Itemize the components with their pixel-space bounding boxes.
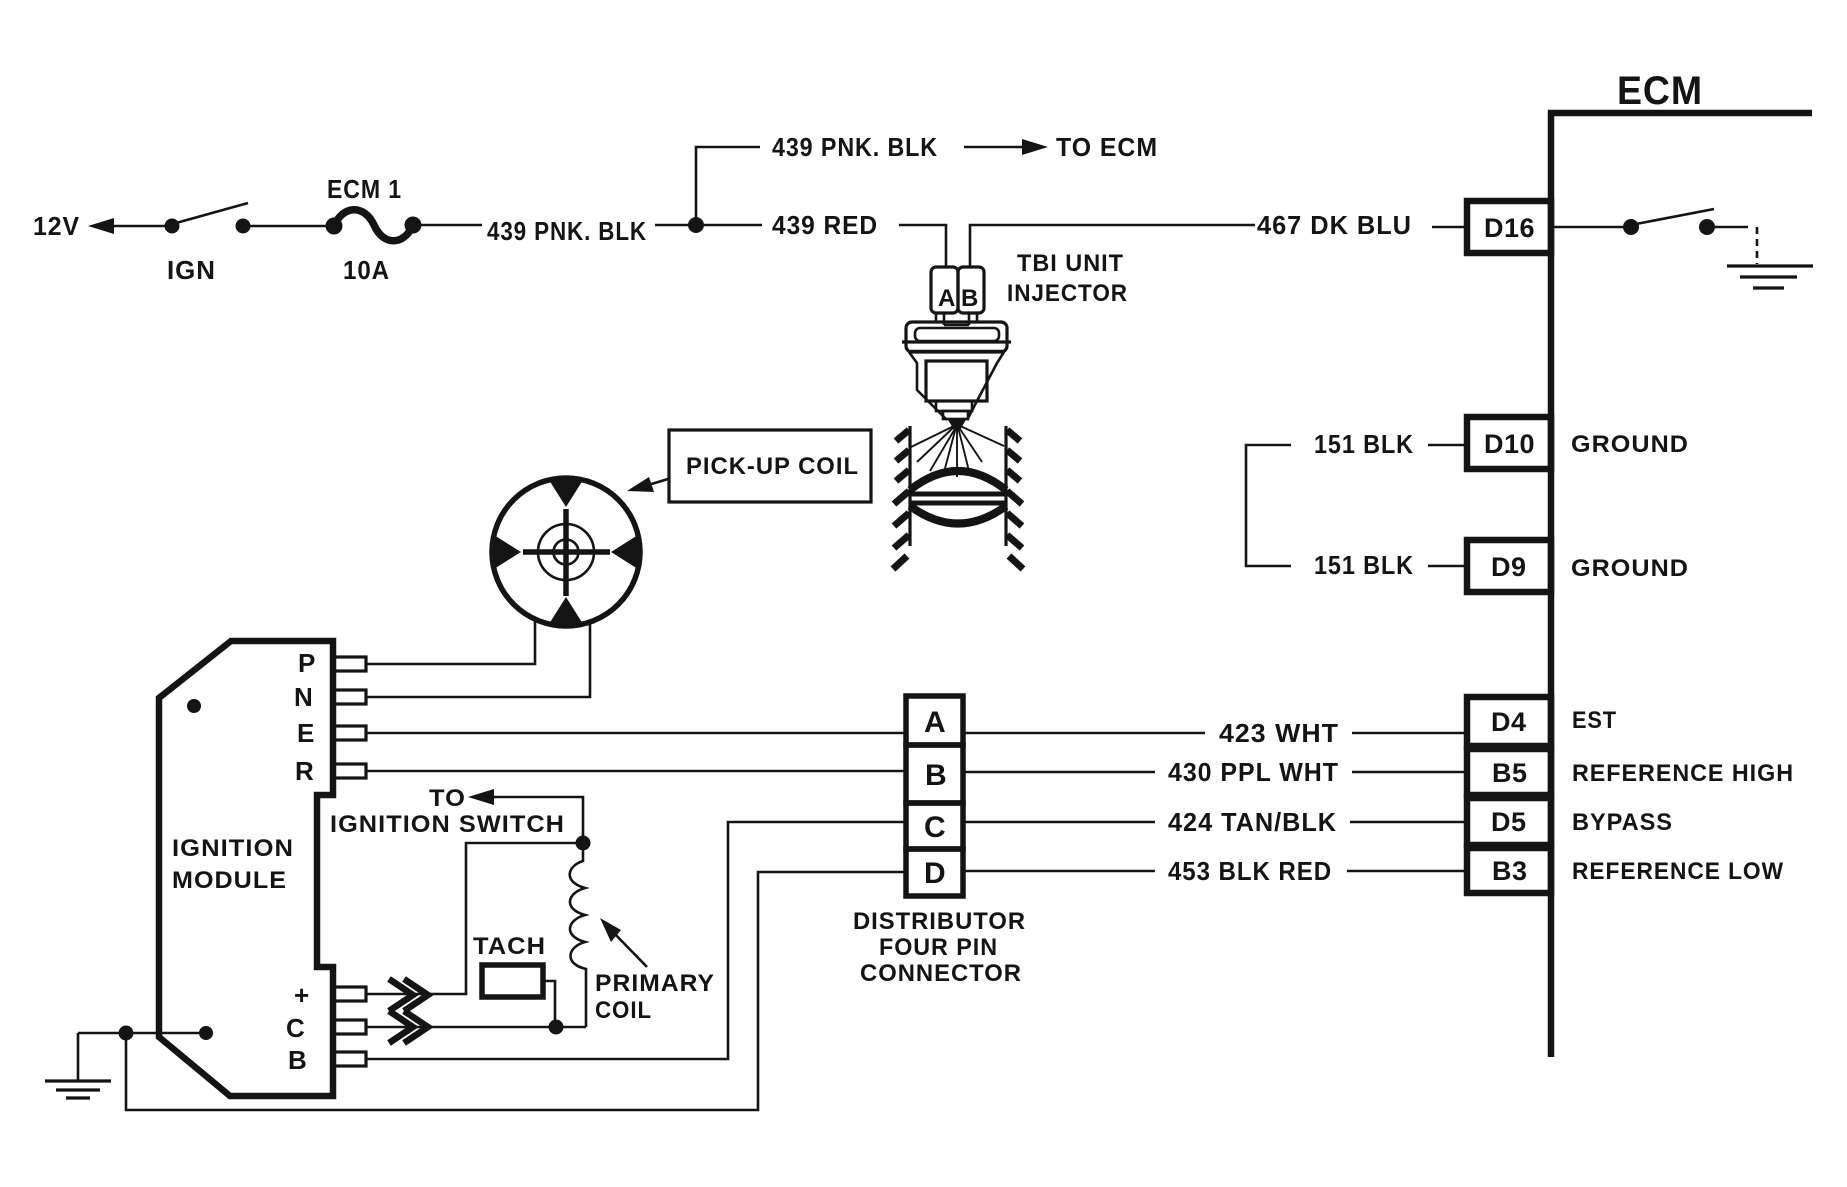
junction tach tap [549,1020,564,1035]
pick-up coil wedge bottom [549,597,583,624]
distributor connector cell D [906,849,963,896]
terminal D10 [1467,417,1551,469]
terminal D16 [1467,201,1551,253]
wire tach to C wire [543,981,555,1027]
injector nozzle [947,418,967,430]
svg-text:439 PNK. BLK: 439 PNK. BLK [772,132,938,162]
label TBI UNIT INJECTOR [1007,250,1128,307]
distributor connector cell C [906,803,963,849]
svg-text:TO ECM: TO ECM [1056,132,1158,162]
module pin N [294,682,366,712]
svg-text:GROUND: GROUND [1571,431,1689,458]
terminal D4 [1467,697,1551,746]
ignition module body [159,641,333,1096]
terminal B3 [1467,848,1551,893]
svg-text:TBI UNIT: TBI UNIT [1017,250,1124,277]
wire connector A to D4 [963,732,1467,735]
svg-text:EST: EST [1572,707,1617,734]
wire ground drop left [77,1033,80,1080]
fuse ECM 1 10A [326,210,422,241]
wire connector C to D5 [963,821,1467,824]
wire pin N to pick-up coil [366,622,590,697]
label IGNITION MODULE [172,835,294,894]
pick-up coil inner circle [538,524,594,580]
wire fuse to label [413,224,482,227]
svg-text:12V: 12V [33,211,80,241]
switch at D16 [1623,209,1715,235]
wire arrow TO ECM [964,139,1048,155]
module pin P [298,648,366,678]
pick-up coil crosshair [523,509,610,596]
svg-text:ECM 1: ECM 1 [327,174,402,204]
svg-text:FOUR PIN: FOUR PIN [879,934,998,961]
module mounting dot [187,699,201,713]
svg-text:R: R [295,756,315,786]
junction coil top [576,836,591,851]
arrow to ignition switch [468,789,583,843]
venturi wall right [1006,426,1023,569]
wire injector pin B to 467 DK BLU [970,225,1255,267]
injector connector pin A [931,267,958,313]
module pin R [295,756,366,786]
svg-text:424 TAN/BLK: 424 TAN/BLK [1168,807,1337,837]
svg-text:PICK-UP COIL: PICK-UP COIL [686,453,859,480]
svg-text:D: D [924,857,946,890]
distributor connector cell B [906,745,963,803]
svg-text:CONNECTOR: CONNECTOR [860,960,1022,987]
switch IGN [165,203,251,234]
terminal D9 [1467,540,1551,592]
svg-text:E: E [297,718,315,748]
svg-text:A: A [924,706,946,739]
svg-text:N: N [294,682,314,712]
wire B pin to connector C [366,822,906,1059]
svg-text:D10: D10 [1484,429,1535,459]
svg-text:151 BLK: 151 BLK [1314,550,1414,580]
svg-text:A: A [938,285,956,312]
svg-text:467 DK BLU: 467 DK BLU [1257,210,1412,240]
wire 151 BLK to D9 [1428,565,1467,568]
pick-up coil wedge top [549,480,583,507]
pick-up coil outer ring [492,478,640,626]
wire label to D16 [1432,226,1467,229]
module pin C [286,1013,366,1043]
primary coil winding [570,843,586,1027]
svg-text:439 RED: 439 RED [772,210,878,240]
venturi wall left [893,426,910,569]
injector spray [909,425,1004,477]
wire pin R to connector B [366,770,906,773]
svg-text:D16: D16 [1484,213,1535,243]
svg-text:439 PNK. BLK: 439 PNK. BLK [487,216,647,246]
venturi lens [910,471,1006,524]
svg-text:151 BLK: 151 BLK [1314,429,1414,459]
svg-text:BYPASS: BYPASS [1572,809,1673,836]
pick-up coil hub [554,540,579,565]
svg-text:453 BLK RED: 453 BLK RED [1168,856,1332,886]
ground (bottom left) [45,1081,111,1098]
injector flange [902,322,1011,352]
svg-text:B: B [961,285,979,312]
junction module case [199,1026,213,1040]
svg-text:+: + [294,980,310,1010]
svg-text:COIL: COIL [595,997,652,1024]
wire pin E to connector A [366,732,906,735]
svg-text:PRIMARY: PRIMARY [595,970,715,997]
wire connector D to ground run [126,872,906,1110]
label box PICK-UP COIL [669,430,871,502]
svg-text:MODULE: MODULE [172,867,287,894]
svg-text:430 PPL WHT: 430 PPL WHT [1168,757,1339,787]
connector chevrons on + wire [389,979,428,1011]
svg-text:P: P [298,648,316,678]
svg-text:423 WHT: 423 WHT [1219,718,1339,748]
svg-text:D5: D5 [1491,807,1527,837]
svg-text:IGN: IGN [167,255,216,285]
svg-text:D4: D4 [1491,707,1527,737]
ECM top edge [1548,110,1812,117]
pick-up coil wedge left [494,535,521,569]
label PRIMARY COIL [595,970,715,1024]
wire junction to 439 RED label [704,224,762,227]
wire junction up to ECM branch [696,147,760,225]
wire 12V feed arrow [88,218,171,234]
injector cone sides [909,352,1004,420]
TACH box [473,933,546,997]
wire ground to module case [78,1032,206,1035]
module pin E [297,718,366,748]
terminal B5 [1467,749,1551,795]
wire connector D to B3 [963,870,1467,873]
wire 439 RED to injector pin A [899,225,946,267]
module pin B [288,1045,366,1075]
svg-text:TACH: TACH [473,933,546,960]
svg-text:B5: B5 [1492,758,1528,788]
wire switch to fuse [243,225,333,228]
svg-text:DISTRIBUTOR: DISTRIBUTOR [853,908,1026,935]
label DISTRIBUTOR FOUR PIN CONNECTOR [853,908,1026,987]
arrow label to pick-up coil [627,477,668,492]
ground (right of ECM) [1727,266,1813,288]
distributor connector cell A [906,696,963,745]
wire label to junction [655,224,696,227]
svg-text:IGNITION SWITCH: IGNITION SWITCH [330,811,565,838]
wire + pin to coil top junction [366,843,583,994]
terminal D5 [1467,798,1551,845]
svg-text:D9: D9 [1491,552,1527,582]
pick-up coil wedge right [611,535,638,569]
svg-text:10A: 10A [343,255,390,285]
svg-text:C: C [924,811,946,844]
svg-text:B: B [925,759,947,792]
svg-text:INJECTOR: INJECTOR [1007,280,1128,307]
module pin + [294,980,366,1010]
svg-text:C: C [286,1013,306,1043]
junction 439 splice [688,217,704,233]
svg-text:GROUND: GROUND [1571,555,1689,582]
wire ground drop (dashed) [1756,227,1759,264]
injector body [926,361,987,401]
svg-text:ECM: ECM [1617,69,1703,113]
wire 151 BLK to D10 [1428,444,1467,447]
svg-text:REFERENCE LOW: REFERENCE LOW [1572,858,1784,885]
junction ground left [119,1026,134,1041]
svg-text:B3: B3 [1492,856,1528,886]
injector connector pin B [958,267,984,313]
wire switch to ground drop [1715,226,1748,229]
wire connector B to B5 [963,771,1467,774]
wire C pin to coil bottom [366,1026,586,1029]
injector neck [936,313,977,325]
wire D16 to switch [1554,226,1624,229]
svg-text:B: B [288,1045,308,1075]
injector tip steps [936,401,972,419]
connector chevrons on C wire [389,1011,428,1043]
wire bracket joining 151 BLK wires [1246,445,1291,566]
svg-text:REFERENCE HIGH: REFERENCE HIGH [1572,760,1794,787]
label TO IGNITION SWITCH [330,785,565,838]
arrow primary coil [600,918,647,967]
wire pin P to pick-up coil [366,619,535,664]
svg-text:TO: TO [429,785,466,812]
ECM connector rail [1548,110,1555,1057]
svg-text:IGNITION: IGNITION [172,835,294,862]
